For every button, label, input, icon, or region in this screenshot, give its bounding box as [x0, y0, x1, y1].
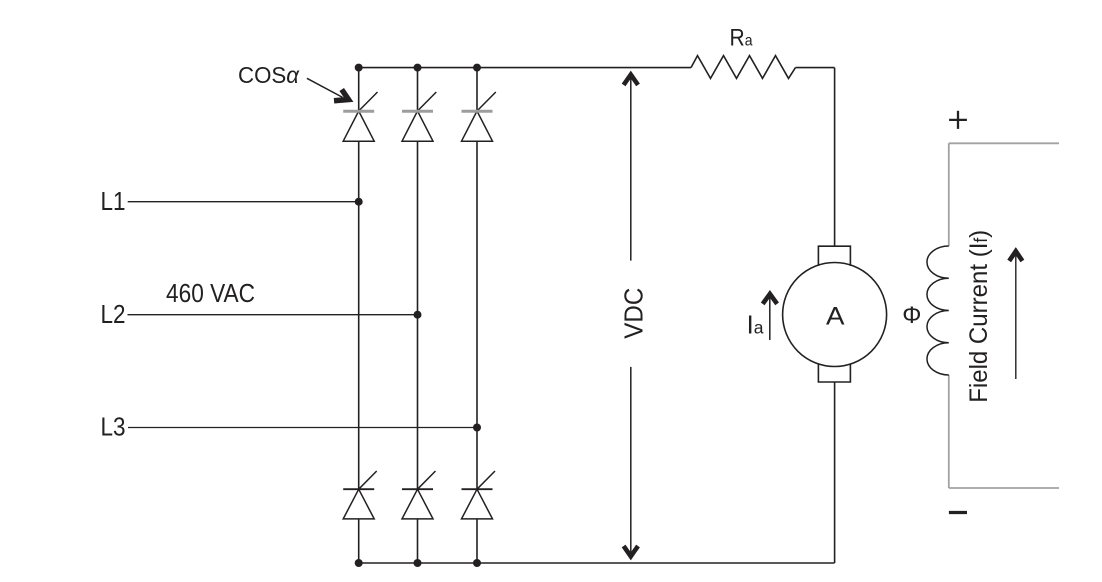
svg-text:L2: L2: [101, 299, 126, 329]
svg-text:460 VAC: 460 VAC: [166, 278, 255, 308]
svg-text:L3: L3: [101, 412, 126, 442]
svg-text:Φ: Φ: [902, 302, 921, 329]
svg-text:VDC: VDC: [619, 288, 649, 339]
svg-text:A: A: [826, 302, 845, 330]
svg-text:COSα: COSα: [238, 62, 300, 88]
svg-text:L1: L1: [101, 186, 126, 216]
svg-text:Field Current (If): Field Current (If): [965, 230, 993, 403]
